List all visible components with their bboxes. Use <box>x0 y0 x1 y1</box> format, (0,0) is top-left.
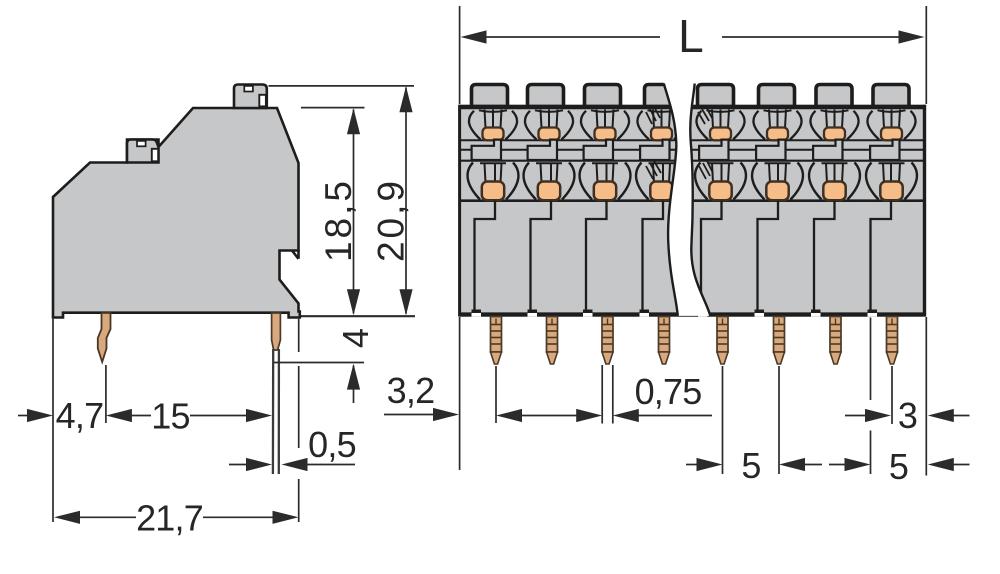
front view: push button cap, pole 6 <box>759 85 795 107</box>
solder pin, pole 4 <box>659 317 670 353</box>
module separator staircase, pole 1 <box>475 201 496 313</box>
extension line: side view right max (21,7 ref) <box>298 319 300 352</box>
module separator staircase, pole 5 <box>701 201 722 313</box>
upper clamp contact insert (orange), pole 8 <box>881 128 902 141</box>
extension line: front right edge bottom <box>925 317 927 476</box>
bottom edge notch at separator 4 <box>640 313 650 317</box>
break gap white area <box>664 81 711 316</box>
lower clamp contact insert (orange), pole 2 <box>538 182 560 201</box>
side view: left tab top notch <box>137 141 146 146</box>
svg-text:21,7: 21,7 <box>136 498 203 539</box>
extension line: foot bottom (20,9 / 4 ref) <box>301 315 415 317</box>
svg-text:0,75: 0,75 <box>635 371 702 412</box>
module separator staircase, pole 8 <box>871 201 892 313</box>
front view: deck line lower (y=160.7) <box>460 160 925 162</box>
extension line: front view left edge bottom <box>459 317 461 470</box>
busbar block, pole 7 <box>813 140 842 160</box>
lower clamp contact insert (orange), pole 8 <box>880 182 902 201</box>
front view: main housing body fill <box>460 105 925 318</box>
front view: top edge <box>459 105 926 110</box>
dimension 5 (last pole) <box>829 464 848 466</box>
dimension 0,5 (y=464.5) <box>229 464 249 466</box>
side view: right solder pin root (copper) <box>272 313 281 350</box>
svg-text:5: 5 <box>741 445 760 486</box>
dimension 20,9 vertical line <box>405 88 407 314</box>
side view: left latch tab <box>127 140 159 163</box>
dimension 3,2 right arrow / 0,75 left arrow shared line <box>496 409 522 422</box>
solder pin, pole 8 <box>887 317 898 353</box>
extension line: body top (18,5 ref) <box>301 107 365 109</box>
svg-text:3: 3 <box>898 395 917 436</box>
section hatch marks right of break, lower deck <box>699 161 713 179</box>
upper clamp contact insert (orange), pole 4 <box>651 128 672 141</box>
upper clamp contact insert (orange), pole 5 <box>710 128 731 141</box>
dimension 4 arrow <box>353 366 355 404</box>
extension line: separator 7/8 (5mm ref) <box>870 318 872 401</box>
svg-text:L: L <box>678 10 703 62</box>
dimension 18,5 vertical line <box>353 110 355 314</box>
front view: push button cap, pole 4 <box>645 85 681 107</box>
solder pin, pole 2 <box>547 317 558 353</box>
module separator staircase, pole 3 <box>586 201 607 313</box>
lower cage clamp, pole 7 <box>809 163 860 220</box>
break line left <box>664 84 678 316</box>
extension line: pin 8 center <box>891 366 893 424</box>
dimension row: 4,7 / 15 (y=415.5) <box>18 415 31 417</box>
bottom edge notch at separator 3 <box>583 313 593 317</box>
bottom edge notch at separator 7 <box>811 313 821 317</box>
lower cage clamp, pole 3 <box>580 163 631 220</box>
extension line: side view left edge <box>52 319 54 522</box>
svg-text:5: 5 <box>889 446 908 487</box>
svg-text:18,5: 18,5 <box>318 178 359 262</box>
front view: clamp section bottom line (y=200.7) <box>460 199 925 202</box>
lower cage clamp, pole 8 <box>866 163 917 220</box>
busbar block, pole 8 <box>870 140 899 160</box>
upper cage clamp, pole 2 <box>525 110 573 140</box>
front view: push button cap, pole 8 <box>873 85 909 107</box>
extension line: front view left edge top <box>459 6 461 104</box>
side view: left solder pin (copper) <box>98 313 111 362</box>
solder pin, pole 6 <box>774 317 785 353</box>
side view: right pin thin blade (0.5mm edge-on) <box>272 349 275 474</box>
solder pin, pole 3 <box>602 317 613 353</box>
bottom edge notch at separator 5 <box>698 313 708 317</box>
module separator staircase, pole 7 <box>814 201 835 313</box>
upper clamp contact insert (orange), pole 7 <box>824 128 845 141</box>
dimension 5 (pins 5-6) <box>686 464 700 466</box>
dimension 3,2 <box>384 414 437 416</box>
upper clamp contact insert (orange), pole 1 <box>483 128 504 141</box>
busbar block, pole 2 <box>528 140 557 160</box>
extension line: pin 1 center <box>495 366 497 423</box>
svg-text:4: 4 <box>335 329 376 348</box>
lower clamp contact insert (orange), pole 3 <box>594 182 616 201</box>
lower clamp contact insert (orange), pole 1 <box>482 182 504 201</box>
solder pin, pole 1 <box>491 317 502 353</box>
bottom edge notch at separator 2 <box>528 313 538 317</box>
busbar block, pole 5 <box>699 140 728 160</box>
front view: push button cap, pole 2 <box>528 85 564 107</box>
busbar block, pole 1 <box>472 140 501 160</box>
extension line: front view right edge top <box>925 6 927 104</box>
extension line: copper pin end (4 ref) <box>274 362 364 364</box>
bottom edge notch at separator 6 <box>755 313 765 317</box>
front view: deck line upper (y=140.3) <box>460 139 925 141</box>
lower clamp contact insert (orange), pole 6 <box>766 182 788 201</box>
busbar block, pole 6 <box>756 140 785 160</box>
svg-text:4,7: 4,7 <box>56 395 104 436</box>
lower clamp contact insert (orange), pole 7 <box>823 182 845 201</box>
front view: deck line middle (y=149.8) <box>460 149 925 151</box>
lower cage clamp, pole 4 <box>636 163 687 220</box>
front view: push button cap, pole 7 <box>816 85 852 107</box>
front view: bottom edge <box>459 312 926 316</box>
module separator staircase, pole 4 <box>643 201 664 313</box>
svg-text:15: 15 <box>151 396 189 437</box>
upper cage clamp, pole 1 <box>469 110 517 140</box>
front view: left edge <box>458 105 461 317</box>
solder pin, pole 5 <box>717 317 728 353</box>
upper clamp contact insert (orange), pole 2 <box>539 128 560 141</box>
busbar block, pole 4 <box>640 140 669 160</box>
module separator staircase, pole 6 <box>758 201 779 313</box>
module separator staircase, pole 2 <box>531 201 552 313</box>
extension line: pin 6 center <box>778 366 780 474</box>
busbar block, pole 3 <box>584 140 613 160</box>
bottom edge notch at separator 8 <box>868 313 878 317</box>
lower cage clamp, pole 6 <box>752 163 803 220</box>
section hatch marks left of break, upper deck <box>646 107 660 125</box>
section hatch marks left of break, lower deck <box>646 161 661 179</box>
side view: top tab notch <box>244 86 253 92</box>
upper cage clamp, pole 4 <box>637 110 685 140</box>
side view: left tab slot <box>152 149 158 162</box>
front view: push button cap, pole 1 <box>472 85 508 107</box>
side view: terminal block housing profile <box>53 108 300 318</box>
upper clamp contact insert (orange), pole 3 <box>595 128 616 141</box>
upper cage clamp, pole 3 <box>581 110 629 140</box>
svg-text:20,9: 20,9 <box>371 178 412 262</box>
bottom edge notch at separator 1 <box>472 313 482 317</box>
side view: top tab slot <box>259 95 266 107</box>
dimension 3 <box>845 415 869 417</box>
upper cage clamp, pole 7 <box>810 110 858 140</box>
lower cage clamp, pole 1 <box>468 163 519 220</box>
svg-text:3,2: 3,2 <box>387 370 435 411</box>
lower clamp contact insert (orange), pole 4 <box>650 182 672 201</box>
front view: push button cap, pole 5 <box>698 85 734 107</box>
side view: top latch tab <box>234 85 267 109</box>
front view: right edge <box>923 105 926 317</box>
extension line: left pin center <box>105 365 107 423</box>
lower clamp contact insert (orange), pole 5 <box>709 182 731 201</box>
extension line: tab top (20,9 ref) <box>269 85 415 87</box>
extension lines: pin 3 edges (0,75 ref) <box>601 365 603 424</box>
svg-text:0,5: 0,5 <box>308 424 356 465</box>
lower cage clamp, pole 2 <box>524 163 575 220</box>
lower cage clamp, pole 5 <box>695 163 746 220</box>
front view: push button cap, pole 3 <box>585 85 621 107</box>
side view: right edge notch hook <box>292 251 299 259</box>
section hatch marks right of break, upper deck <box>698 107 712 125</box>
upper cage clamp, pole 6 <box>753 110 801 140</box>
upper cage clamp, pole 8 <box>867 110 915 140</box>
solder pin, pole 7 <box>830 317 841 353</box>
dimension 0,75 right arrow <box>613 409 639 422</box>
break line right <box>690 84 710 316</box>
extension line: pin 5 center <box>722 366 724 474</box>
upper clamp contact insert (orange), pole 6 <box>767 128 788 141</box>
dimension L <box>461 30 487 43</box>
upper cage clamp, pole 5 <box>696 110 744 140</box>
dimension 21,7 (y=517.3) <box>54 511 80 524</box>
